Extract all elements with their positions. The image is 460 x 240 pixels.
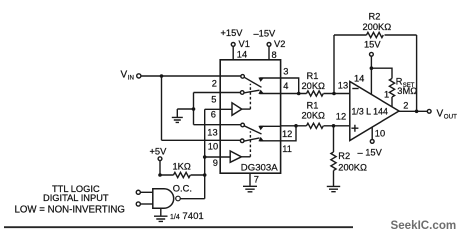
svg-text:IN: IN — [128, 75, 134, 82]
switch S2 arm from pin13 — [244, 126, 261, 134]
svg-text:7: 7 — [254, 175, 259, 185]
wire Vin to pin2 — [141, 75, 241, 77]
switch S2 arm from pin10 — [244, 138, 260, 141]
switch S1 arm from pin5 — [244, 90, 260, 93]
wire pin7 — [249, 173, 251, 186]
svg-text:8: 8 — [272, 50, 277, 60]
junction ground tap — [192, 107, 196, 111]
dashed control link S1 — [249, 84, 251, 109]
wire op-amp output — [399, 110, 427, 112]
svg-text:SeekIC.com: SeekIC.com — [391, 219, 457, 232]
node V2 terminal — [267, 43, 271, 47]
svg-text:13: 13 — [338, 81, 348, 91]
node 15V terminal — [370, 52, 374, 56]
wire pin9 line — [205, 156, 230, 158]
wire 15V drop — [370, 56, 372, 95]
node Vin terminal — [137, 74, 141, 78]
op-amp plus sign — [351, 125, 358, 132]
wire pin13 line — [194, 124, 241, 126]
ground G2 NAND — [160, 208, 162, 216]
svg-text:5: 5 — [211, 95, 216, 105]
wire inverter A2 output — [241, 156, 250, 158]
junction 5V node — [158, 173, 162, 177]
svg-text:3: 3 — [283, 67, 288, 77]
svg-text:R1: R1 — [307, 100, 319, 110]
svg-text:+15V: +15V — [221, 28, 244, 38]
svg-text:14: 14 — [354, 74, 364, 84]
wire pin6 line — [205, 108, 232, 110]
svg-text:DG303A: DG303A — [241, 163, 278, 174]
resistor R2 lower 200K — [331, 126, 336, 186]
wire Rset top link — [371, 68, 392, 78]
svg-text:20KΩ: 20KΩ — [302, 110, 326, 120]
svg-text:V: V — [437, 109, 444, 120]
resistor RSET 3M — [389, 79, 394, 107]
wire control vertical net — [204, 109, 206, 198]
bottom border line — [4, 226, 353, 228]
node Vout terminal — [427, 109, 431, 113]
junction pin9 tap — [203, 155, 207, 159]
svg-text:– 15V: – 15V — [358, 147, 383, 157]
svg-text:10: 10 — [208, 142, 218, 152]
wire pin3 bracket — [281, 78, 299, 94]
ground G3 pin7 — [243, 186, 257, 192]
switch S2 throw line pin12 — [260, 125, 281, 127]
node -15V terminal opamp — [370, 140, 374, 144]
svg-text:R2: R2 — [338, 151, 350, 161]
wire pin10 line — [162, 139, 241, 141]
wire pin8 — [268, 46, 270, 60]
switch S1 contact pin2 — [241, 75, 245, 79]
junction pin11-12 — [294, 124, 298, 128]
node NAND input A terminal — [136, 190, 140, 194]
node V1 terminal — [231, 43, 235, 47]
svg-text:10: 10 — [375, 129, 385, 139]
svg-text:OUT: OUT — [444, 113, 457, 120]
svg-text:15V: 15V — [364, 40, 381, 50]
svg-text:–15V: –15V — [254, 29, 277, 39]
switch S2 arrow pin12 — [258, 126, 264, 130]
junction feedback node — [332, 92, 336, 96]
svg-text:13: 13 — [207, 128, 217, 138]
svg-text:20KΩ: 20KΩ — [302, 81, 326, 91]
svg-text:V2: V2 — [274, 39, 285, 49]
wire inverter A1 output — [242, 108, 251, 110]
resistor R1 upper 20K — [281, 91, 350, 96]
switch S2 contact pin13 — [241, 123, 245, 127]
wire Vin branch vertical — [161, 76, 163, 140]
wire NAND input B — [140, 203, 152, 205]
svg-text:12: 12 — [336, 111, 346, 121]
ground G4 below R2 — [327, 186, 340, 191]
junction pin3-4 — [297, 92, 301, 96]
svg-text:6: 6 — [211, 109, 216, 119]
svg-text:V1: V1 — [239, 39, 250, 49]
op-amp minus sign — [352, 88, 358, 90]
wire ground tap — [177, 108, 193, 110]
svg-text:2: 2 — [403, 101, 408, 111]
junction R2 lower node — [332, 124, 336, 128]
op-amp U1 1/3 L144 — [350, 82, 399, 141]
junction output node — [415, 110, 419, 114]
inverter A2 — [230, 151, 241, 162]
svg-text:200KΩ: 200KΩ — [338, 163, 367, 173]
node +5V terminal — [158, 157, 162, 161]
resistor R1 lower 20K — [281, 123, 350, 128]
wire pin5 line — [194, 92, 241, 94]
svg-text:1/4 7401: 1/4 7401 — [170, 211, 204, 222]
svg-text:4: 4 — [283, 81, 288, 91]
svg-text:O.C.: O.C. — [173, 184, 192, 194]
switch S1 contact pin5 — [240, 91, 244, 95]
wire NAND input A — [140, 191, 152, 193]
switch S2 contact pin10 — [240, 139, 244, 143]
NAND gate U3 1/4 7401 — [153, 189, 174, 208]
svg-text:R2: R2 — [369, 11, 381, 21]
wire +5V drop — [159, 161, 161, 175]
switch S1 throw line pin3 — [260, 77, 281, 79]
svg-text:+5V: +5V — [150, 147, 168, 157]
switch S1 arrow pin4 — [258, 90, 264, 94]
wire pin11 bracket — [281, 126, 297, 141]
switch S2 throw line pin11 — [260, 140, 281, 142]
svg-text:14: 14 — [237, 50, 247, 60]
svg-text:11: 11 — [282, 144, 292, 154]
svg-text:2: 2 — [212, 79, 217, 89]
svg-text:200KΩ: 200KΩ — [363, 22, 392, 32]
svg-text:LOW = NON-INVERTING: LOW = NON-INVERTING — [15, 204, 125, 215]
resistor R2 feedback 200K — [334, 32, 417, 111]
inverter A1 — [232, 103, 242, 116]
IC U2 DG303A body — [220, 60, 280, 173]
wire op-amp pin10 — [371, 127, 373, 139]
wire NAND output — [180, 198, 204, 200]
svg-text:1: 1 — [384, 90, 389, 100]
switch S1 arrow pin3 — [258, 78, 264, 82]
svg-text:9: 9 — [213, 158, 218, 168]
junction Vin split — [160, 74, 164, 78]
svg-text:3MΩ: 3MΩ — [397, 86, 417, 96]
svg-text:R: R — [396, 77, 403, 87]
ground G1 — [176, 109, 178, 117]
switch S2 arrow pin11 — [258, 137, 264, 141]
junction 15V node — [370, 66, 374, 70]
switch S1 throw line pin4 — [260, 93, 281, 95]
dashed control link S2 — [249, 131, 251, 157]
wire pin14 — [232, 46, 234, 60]
switch S1 arm from pin2 — [244, 77, 261, 87]
wire pin5 to pin13 vertical — [193, 93, 195, 125]
node NAND input B terminal — [136, 202, 140, 206]
resistor 1K ohm — [160, 172, 205, 177]
svg-text:1KΩ: 1KΩ — [173, 162, 191, 172]
svg-text:R1: R1 — [307, 71, 319, 81]
svg-text:V: V — [121, 70, 128, 81]
junction 1K node — [203, 173, 207, 177]
svg-text:1/3 L 144: 1/3 L 144 — [352, 107, 388, 117]
svg-text:12: 12 — [282, 129, 292, 139]
svg-text:DIGITAL INPUT: DIGITAL INPUT — [43, 193, 109, 203]
